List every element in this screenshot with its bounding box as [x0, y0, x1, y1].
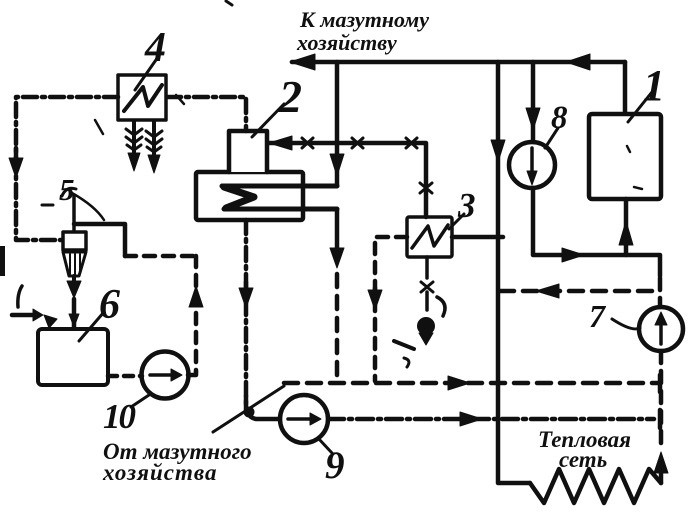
wire heater 3 to main vertical: [452, 235, 503, 240]
pointer for label 3: [449, 214, 464, 229]
wire dashed right vertical: [658, 278, 663, 307]
wire tank 6 to pump 10: [108, 374, 142, 379]
svg-text:9: 9: [325, 444, 345, 487]
leader diagonal from text to junction: [213, 386, 284, 432]
valve x mark 4 on vertical: [420, 183, 432, 193]
wire corner down to tank 1: [623, 62, 628, 112]
node drain splash marks: [394, 341, 414, 349]
wire dashed return line y291: [500, 289, 660, 294]
pointer curl for label 5: [72, 193, 104, 220]
node arrow down to pump 8: [526, 108, 540, 130]
node arrow down on that wire: [330, 154, 344, 176]
wire heater 3 bottom drain: [425, 257, 429, 310]
node arrow right on pump 8 outlet: [562, 248, 584, 262]
svg-text:хозяйству: хозяйству: [296, 30, 397, 55]
wire dashed coil outlet to return line: [335, 274, 340, 381]
wire long vertical main: [498, 62, 530, 483]
heat network zigzag: [530, 469, 661, 503]
pointer for label 4: [135, 57, 158, 90]
wire tank 1 bottom feed: [624, 199, 629, 255]
wire dashed below pump 7: [659, 351, 664, 450]
svg-text:1: 1: [643, 61, 665, 110]
wire dash-dot heater 4 to heater 2: [167, 97, 246, 131]
valve 5 stem: [72, 196, 76, 232]
wire dashed return line y383: [284, 381, 658, 386]
pump U10 circle: [142, 352, 189, 399]
svg-text:6: 6: [99, 282, 120, 328]
nozzle right under heater 4: [152, 121, 156, 158]
node arrow down on left vertical: [14, 148, 19, 160]
pointer for label 6: [79, 312, 104, 341]
svg-text:3: 3: [457, 186, 476, 225]
wire steam line with valves from heater 2 to heater 3: [268, 143, 426, 217]
node arrow up on recirculation: [189, 286, 203, 307]
node arrow left end of top line: [290, 54, 315, 70]
heater 4 zigzag: [124, 85, 162, 111]
wire dash-dot heater 2 bottom down: [244, 220, 249, 408]
pump U7 circle: [639, 307, 683, 351]
wire valve 5 top to recirculation: [74, 224, 125, 256]
svg-text:10: 10: [103, 397, 136, 436]
svg-text:2: 2: [278, 71, 302, 122]
node arrow left into heater 2: [269, 136, 292, 150]
node arrow left on return y291: [536, 284, 559, 298]
valve x mark 2: [352, 138, 363, 148]
valve x mark 3: [406, 138, 417, 148]
node inlet arrow into tank 6: [12, 313, 34, 318]
node arrow up near heat network: [654, 452, 668, 473]
svg-text:4: 4: [144, 25, 166, 71]
pointer for label 1: [628, 92, 652, 122]
node arrow mid top line pointing left: [566, 54, 590, 70]
heater 2 lower shell: [196, 172, 303, 220]
svg-text:К мазутному: К мазутному: [299, 7, 429, 32]
wire dashed recirculation vertical to pump 10: [194, 256, 199, 372]
valve 5 cone: [63, 252, 86, 276]
svg-text:7: 7: [589, 298, 607, 334]
wire pump 8 outlet down and right: [533, 188, 660, 276]
heater 4 box: [118, 75, 166, 120]
pump U9 circle: [280, 395, 328, 443]
pump U8 inner arrow: [530, 148, 534, 176]
nozzle left under heater 4: [132, 121, 136, 156]
node arrow up into tank 1: [619, 221, 633, 245]
node drain curl: [437, 297, 445, 316]
wire dashed recirculation horizontal: [125, 254, 196, 259]
pointer for label 8: [545, 128, 558, 148]
pump U9 inner arrow: [288, 417, 310, 421]
heater 3 zigzag: [412, 225, 448, 248]
wire heater 2 coil outlet down: [335, 209, 340, 252]
pointer for label 10: [131, 395, 149, 407]
svg-text:сеть: сеть: [559, 447, 607, 472]
tank 1 box: [589, 114, 661, 199]
wire vertical from top line into heater 2 coil: [305, 62, 337, 186]
pointer for label 9: [318, 438, 332, 453]
node arrow right on return line: [448, 376, 470, 390]
heater 2 coil tubes: [222, 186, 337, 209]
node drain blob: [418, 318, 435, 335]
pump U10 inner arrow: [150, 373, 172, 377]
valve x on heater 3 drain: [421, 282, 433, 292]
wire from top line down to pump 8: [531, 62, 536, 142]
node arrow right on that: [460, 412, 482, 426]
wire dash-dot left of heater 4: [16, 97, 118, 240]
wire pump 10 outlet: [188, 372, 196, 375]
svg-text:хозяйства: хозяйства: [102, 460, 217, 485]
pointer for label 2: [252, 104, 284, 137]
node arrow down on that: [244, 282, 249, 292]
node arrow down on coil outlet: [330, 248, 344, 268]
valve 5 actuator box: [63, 232, 86, 250]
valve x mark 1: [302, 138, 313, 148]
node arrow down on long vertical: [491, 140, 505, 162]
tank 6 box: [38, 329, 108, 385]
pump U7 inner arrow: [659, 324, 663, 344]
wire top main line to fuel-oil facility: [292, 60, 625, 65]
pointer for label 7: [612, 319, 640, 329]
heater 2 upper neck: [229, 131, 267, 172]
pump U8 circle: [509, 142, 555, 188]
wire dash-dot pump 9 to heat network: [328, 417, 654, 422]
node arrow down on heater 3 drain: [373, 288, 378, 296]
valve 5 outlet arrow: [72, 276, 76, 281]
svg-text:8: 8: [551, 100, 568, 136]
svg-text:5: 5: [59, 172, 75, 207]
wire heater 3 left dashed down: [375, 237, 407, 381]
heater 3 box: [407, 217, 452, 257]
wire junction to pump 9: [244, 396, 249, 410]
stray scan marks: [42, 204, 53, 207]
